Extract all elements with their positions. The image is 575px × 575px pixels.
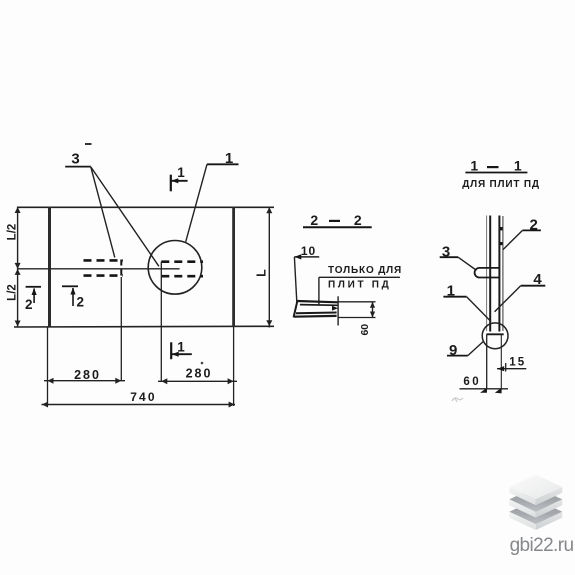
- label 4 bar: [521, 285, 546, 287]
- extension below plate right: [233, 327, 235, 406]
- 2-2 bar bottom edge: [294, 315, 337, 318]
- stray scan dot: [201, 362, 204, 365]
- left L/2 dimension line: [17, 207, 19, 328]
- leader drop into bar: [318, 277, 320, 304]
- 2-2 bar top edge: [297, 301, 338, 302]
- label 9 bar: [447, 355, 468, 357]
- left hidden recess: top dashed line: [84, 259, 124, 262]
- svg-text:740: 740: [130, 390, 157, 404]
- right L dimension line: [268, 207, 270, 328]
- dim line 280 right: [158, 380, 237, 382]
- svg-text:gbi22.ru: gbi22.ru: [510, 535, 574, 556]
- svg-text:280: 280: [186, 367, 213, 381]
- dim 60 line (1-1): [460, 388, 509, 390]
- dim 10 line: [294, 256, 319, 258]
- arrows on left dimension line: [15, 207, 21, 327]
- svg-text:L: L: [255, 269, 269, 277]
- arrows on right dimension line: [266, 207, 272, 326]
- 2-2 bar bottom inner edge: [296, 312, 337, 315]
- svg-text:L/2: L/2: [7, 284, 19, 301]
- label 3 leader (section): [458, 257, 475, 269]
- 2-2 cut vertical line: [337, 296, 339, 325]
- 2-2 bar left slanted edge: [294, 301, 298, 317]
- label 2 bar: [523, 229, 541, 231]
- detail circle 9: [482, 323, 508, 349]
- svg-text:ТОЛЬКО ДЛЯ: ТОЛЬКО ДЛЯ: [328, 265, 402, 276]
- title 1-1 dash: [487, 166, 499, 168]
- svg-text:2: 2: [77, 295, 85, 310]
- left hidden recess: bottom dashed line: [84, 274, 124, 277]
- extension right below circle: [500, 334, 502, 389]
- extension left below circle: [486, 334, 488, 389]
- stray scan dash top: [85, 143, 92, 145]
- faint scan scribble: [452, 398, 463, 402]
- svg-text:2: 2: [310, 212, 318, 228]
- svg-text:280: 280: [74, 368, 101, 382]
- 2-2 bar top inner edge: [300, 304, 338, 307]
- section marker 1 upper: tick: [170, 175, 172, 192]
- svg-text:3: 3: [442, 244, 450, 261]
- svg-text:60: 60: [463, 376, 481, 388]
- extension line from recess down to 280 dim: [120, 277, 122, 381]
- extension from 10 down to bar: [294, 257, 296, 302]
- section marker 1 upper: arrow bar: [171, 180, 187, 182]
- label 3 bar: [65, 166, 91, 168]
- svg-text:2: 2: [354, 212, 362, 228]
- 1-1 slab left main line: [489, 216, 491, 332]
- rebar tick lower: [499, 242, 502, 245]
- svg-text:2: 2: [530, 217, 538, 234]
- svg-text:1: 1: [447, 283, 455, 300]
- extension below plate left: [47, 327, 49, 406]
- label 1 bar: [207, 163, 239, 165]
- label 4 leader: [495, 286, 521, 312]
- left hidden recess: right dashed vertical: [120, 260, 122, 278]
- circle hidden recess: bottom dashed line: [161, 275, 203, 278]
- label 3 bar (section): [440, 256, 458, 258]
- dim line 740: [42, 404, 236, 406]
- svg-text:ДЛЯ ПЛИТ ПД: ДЛЯ ПЛИТ ПД: [462, 179, 540, 190]
- plan view: detail circle around hole: [148, 240, 202, 294]
- section 2-2 title underline: [303, 226, 372, 228]
- leader shelf for note text: [319, 276, 400, 278]
- plan view: plate left edge (thick): [48, 207, 51, 326]
- svg-text:ПЛИТ ПД: ПЛИТ ПД: [328, 280, 392, 291]
- label 3 leader to recess: [91, 167, 115, 258]
- svg-text:3: 3: [71, 151, 79, 168]
- small arrow at bar right: [332, 306, 338, 311]
- section 1-1 title underline: [465, 172, 527, 174]
- circle hidden recess: top dashed line: [161, 260, 203, 263]
- section marker 1 lower: arrow bar: [172, 353, 192, 355]
- title 2-2 dash: [329, 220, 340, 222]
- label 9 leader: [468, 341, 484, 355]
- svg-text:15: 15: [509, 357, 526, 369]
- cap line inside detail circle: [487, 333, 504, 335]
- lifting loop capsule: [475, 268, 500, 278]
- gbi22 logo: middle slab: [509, 487, 562, 518]
- 1-1 slab right main line: [498, 216, 500, 332]
- label 1 leader to circle: [186, 164, 207, 242]
- svg-text:1: 1: [514, 158, 522, 174]
- plan view: plate top edge: [17, 206, 274, 208]
- section marker 2 left: bar: [26, 286, 41, 288]
- section marker 2 left: arrow up: [33, 289, 35, 304]
- svg-text:1: 1: [177, 340, 185, 355]
- dim 15 stub: [505, 363, 507, 372]
- svg-text:2: 2: [25, 297, 33, 312]
- label 2 leader: [503, 230, 523, 249]
- svg-text:60: 60: [359, 324, 371, 336]
- svg-text:1: 1: [225, 150, 233, 167]
- plan view: plate right edge (thick): [232, 207, 235, 326]
- svg-text:10: 10: [301, 244, 316, 258]
- section marker 2 right: arrow up: [72, 288, 74, 306]
- dim line 280 left: [44, 380, 125, 382]
- 1-1 slab left outer thin line: [486, 216, 488, 332]
- svg-text:9: 9: [449, 342, 457, 359]
- svg-text:4: 4: [533, 271, 542, 288]
- plan view: horizontal centre line: [18, 268, 180, 270]
- section marker 1 lower: tick: [170, 342, 172, 359]
- extension line through circle down to 280 dim: [160, 262, 162, 381]
- gbi22 logo: bottom slab: [509, 475, 573, 556]
- dim 15 line: [497, 368, 526, 370]
- svg-text:L/2: L/2: [7, 224, 19, 241]
- label 3 leader to circle: [91, 167, 159, 266]
- 60 extension top: [338, 301, 375, 303]
- gbi22 logo: top slab: [509, 475, 562, 506]
- 60 extension bottom: [338, 317, 375, 319]
- svg-text:1: 1: [177, 165, 185, 180]
- label 1 leader (section): [467, 297, 491, 322]
- label 1 bar (section): [443, 296, 466, 298]
- section marker 2 right: bar: [62, 285, 78, 287]
- 60 dim vertical: [372, 302, 374, 318]
- 1-1 slab right outer thin line: [502, 216, 504, 331]
- svg-text:1: 1: [470, 158, 478, 174]
- plan view: plate bottom edge: [14, 325, 274, 328]
- rebar tick upper: [499, 227, 502, 230]
